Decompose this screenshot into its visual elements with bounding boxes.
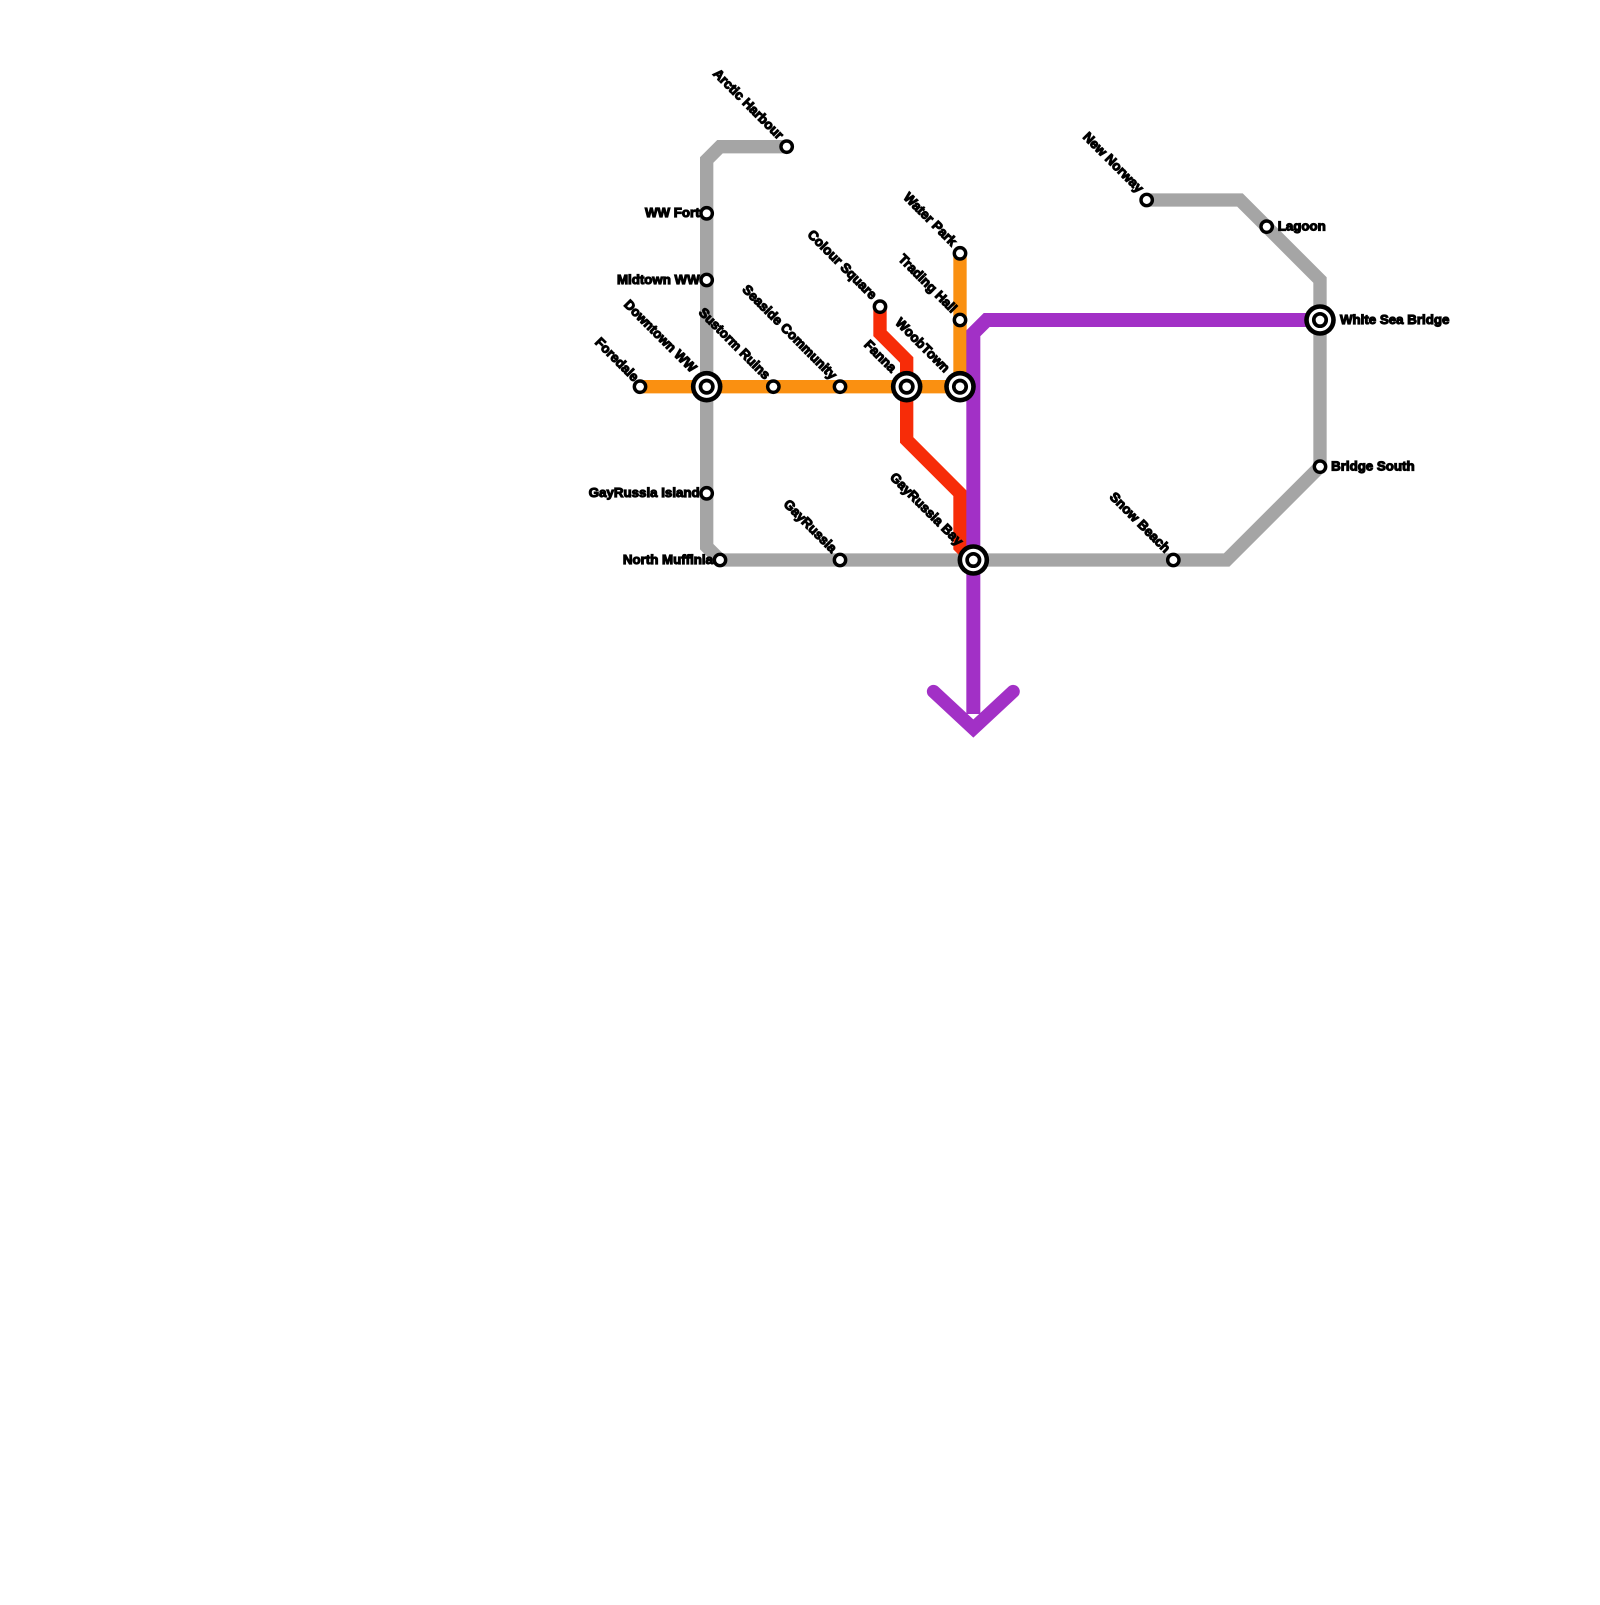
svg-text:Midtown WW: Midtown WW	[617, 272, 700, 287]
svg-text:North Muffinia: North Muffinia	[623, 552, 714, 567]
svg-text:GayRussia Island: GayRussia Island	[589, 485, 700, 500]
svg-text:WW Fort: WW Fort	[645, 205, 700, 220]
svg-text:Bridge South: Bridge South	[1331, 458, 1414, 473]
svg-text:Lagoon: Lagoon	[1278, 218, 1326, 233]
svg-text:White Sea Bridge: White Sea Bridge	[1340, 312, 1449, 327]
